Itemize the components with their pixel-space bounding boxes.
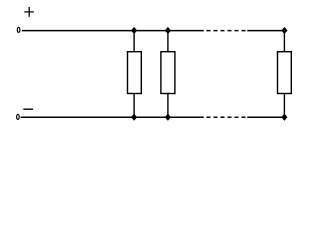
wire: top rail dashed continuation — [207, 30, 246, 32]
resistor R1 — [128, 52, 142, 94]
junction: bottom rail / R2 — [165, 114, 171, 121]
junction: top rail / R2 — [165, 27, 171, 34]
wire: Rn bottom lead — [283, 93, 285, 117]
wire: top rail solid left segment — [22, 30, 204, 32]
resistor R2 — [161, 52, 175, 94]
resistor Rn — [278, 52, 292, 94]
wire: bottom rail dashed continuation — [207, 116, 246, 118]
wire: R1 top lead — [133, 31, 135, 53]
wire: bottom rail solid left segment — [21, 116, 204, 118]
terminal node 0 (top, positive) — [17, 27, 20, 32]
wire: R2 bottom lead — [167, 93, 169, 117]
terminal node 0 (bottom, negative) — [17, 114, 20, 119]
wire: R1 bottom lead — [133, 93, 135, 117]
wire: top rail solid right segment — [247, 30, 284, 32]
wire: Rn top lead — [283, 31, 285, 53]
wire: R2 top lead — [167, 31, 169, 53]
plus polarity label — [24, 7, 34, 17]
junction: bottom rail / R1 — [131, 114, 137, 121]
junction: bottom rail / Rn — [281, 114, 287, 121]
junction: top rail / Rn — [281, 27, 287, 34]
wire: bottom rail solid right segment — [247, 116, 284, 118]
minus polarity label — [23, 108, 33, 110]
junction: top rail / R1 — [131, 27, 137, 34]
